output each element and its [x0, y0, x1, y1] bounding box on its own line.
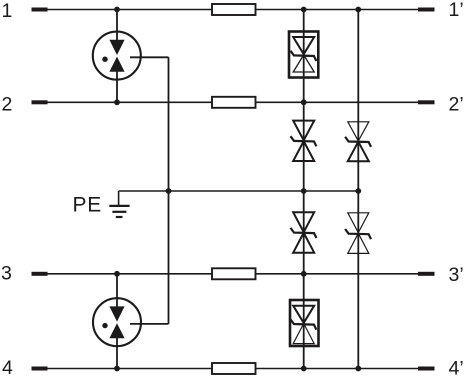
wire GDT column upper, above arrester [116, 10, 118, 41]
wire GDT column upper, below arrester [116, 71, 118, 102]
wire column A (x=303.7) [303, 10, 305, 369]
gas discharge tube lower electrode dot [102, 323, 107, 328]
terminal 2 left [32, 100, 48, 104]
wire line 1 [47, 9, 419, 11]
junction line1/column B [355, 7, 361, 13]
gas discharge tube upper up-arrow [109, 57, 124, 72]
gas discharge tube upper electrode dot [102, 57, 107, 62]
junction line4/column A [301, 366, 307, 372]
terminal 1' right [418, 8, 435, 12]
wire line 2 [47, 101, 419, 103]
suppressor diode A upper (between line2 and PE): top triangle [293, 121, 314, 141]
wire GDT column lower, below arrester [116, 338, 118, 369]
svg-text:1’: 1’ [449, 0, 464, 21]
svg-text:3’: 3’ [449, 264, 464, 286]
PE ground bar 3 [116, 216, 123, 218]
resistor on line 1 [212, 4, 256, 15]
terminal 1 left [32, 8, 48, 12]
wire line 3 [47, 273, 419, 275]
gas discharge tube lower down-arrow [109, 306, 124, 321]
resistor on line 3 [212, 268, 256, 279]
suppressor diode A upper: zener bar [291, 136, 317, 146]
svg-text:4’: 4’ [449, 357, 464, 376]
resistor on line 4 [212, 363, 256, 374]
junction line4/column B [355, 366, 361, 372]
suppressor diode B upper: bottom triangle [348, 142, 369, 162]
suppressor diode B lower: zener bar [345, 229, 371, 239]
suppressor diode B upper: zener bar [345, 137, 371, 147]
svg-text:2: 2 [2, 94, 13, 116]
terminal 3' right [418, 272, 435, 276]
wire column B (x=358.3) [357, 10, 359, 369]
wire tap of upper GDT [130, 56, 169, 58]
wire middle vertical (GDT taps to PE) [168, 57, 170, 324]
junction line4/GDT column [114, 366, 120, 372]
wire line 4 [47, 368, 419, 370]
suppressor diode A lower: zener bar [291, 228, 317, 238]
gas discharge tube lower up-arrow [109, 323, 124, 338]
junction line2/column A [301, 99, 307, 105]
svg-text:1: 1 [2, 0, 13, 22]
junction line3/GDT column [114, 271, 120, 277]
PE ground bar 2 [112, 211, 126, 213]
suppressor box upper (rect) [289, 32, 318, 78]
junction PE/column A [301, 188, 307, 194]
svg-text:PE: PE [73, 194, 103, 217]
junction PE/column B [355, 188, 361, 194]
junction PE/middle vertical [166, 188, 172, 194]
wire PE bus [119, 190, 359, 192]
PE ground stem [118, 191, 120, 206]
wire tap of lower GDT [130, 323, 169, 325]
resistor on line 2 [212, 97, 256, 108]
suppressor box lower (rect) [290, 300, 319, 346]
suppressor diode upper box: zener bar [291, 51, 317, 61]
gas discharge tube upper down-arrow [109, 40, 124, 55]
suppressor diode A upper: bottom triangle [293, 141, 314, 161]
suppressor diode A lower (between PE and line3): top triangle [293, 212, 314, 232]
suppressor diode A lower: bottom triangle [293, 233, 314, 253]
suppressor diode lower box: bottom triangle [293, 324, 314, 344]
terminal 3 left [32, 272, 48, 276]
suppressor diode lower box: top triangle [293, 306, 314, 323]
terminal 2' right [418, 100, 435, 104]
terminal 4 left [32, 367, 48, 371]
junction line1/GDT column [114, 7, 120, 13]
wire GDT column lower, above arrester [116, 274, 118, 307]
svg-text:3: 3 [1, 262, 12, 284]
suppressor diode B lower: bottom triangle [348, 233, 369, 253]
svg-text:2’: 2’ [449, 93, 464, 115]
junction line1/column A [301, 7, 307, 13]
junction line3/column A [301, 271, 307, 277]
suppressor diode B upper (between line2 and PE): top triangle [348, 122, 369, 141]
suppressor diode B lower (between PE and line3): top triangle [348, 213, 369, 233]
svg-text:4: 4 [2, 357, 13, 376]
suppressor diode lower box: zener bar [291, 319, 317, 329]
terminal 4' right [418, 367, 435, 371]
gas discharge tube lower (circle) [93, 298, 141, 346]
junction line2/GDT column [114, 99, 120, 105]
gas discharge tube upper (circle) [93, 32, 141, 80]
suppressor diode upper box: top triangle [293, 37, 314, 54]
suppressor diode upper box: bottom triangle [293, 55, 314, 72]
PE ground bar 1 [109, 205, 129, 207]
